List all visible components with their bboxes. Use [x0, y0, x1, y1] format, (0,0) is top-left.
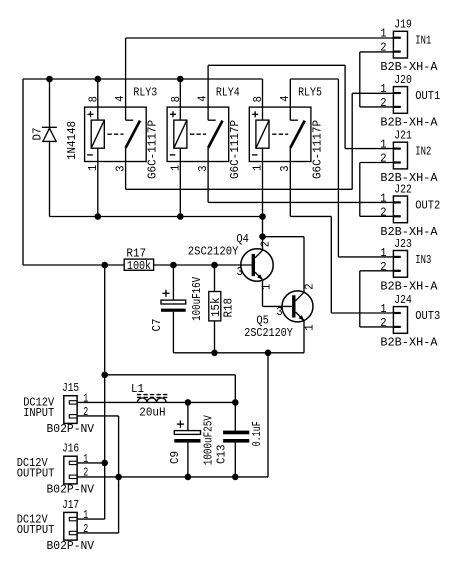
svg-text:OUT3: OUT3 — [415, 309, 440, 323]
wire D7 anode lead — [49, 141, 51, 216]
svg-text:J20: J20 — [394, 73, 412, 87]
svg-text:OUT1: OUT1 — [415, 89, 440, 103]
resistor R18 — [209, 292, 221, 321]
svg-text:2: 2 — [380, 316, 386, 330]
svg-text:1: 1 — [380, 82, 386, 96]
junction — [177, 76, 184, 83]
svg-text:2: 2 — [302, 284, 316, 290]
connector J15 — [64, 396, 77, 424]
diode D7 — [42, 127, 57, 141]
wire J19-J20 pin2 riser — [359, 52, 361, 107]
wire filtered 12V top run — [105, 374, 236, 376]
wire C13 top lead — [234, 375, 236, 431]
wire IN3 drop — [337, 79, 339, 257]
wire J16 pin1 — [77, 462, 105, 464]
wire RLY5 pin1 lead / Q4 collector — [262, 148, 264, 250]
wire input ground drop — [118, 416, 120, 533]
junction — [265, 350, 272, 357]
wire C13 bottom lead — [234, 443, 236, 477]
wire J23-J24 pin2 riser — [359, 271, 361, 327]
svg-text:J17: J17 — [62, 498, 79, 512]
wire R17 to Q4 base — [154, 264, 252, 266]
inductor L1 — [137, 395, 169, 403]
wire J19 pin2 — [360, 51, 394, 53]
svg-text:3: 3 — [237, 265, 243, 279]
wire RLY3 pin3 lead — [125, 148, 127, 189]
wire base feed left of R17 — [23, 264, 124, 266]
connector J22 — [393, 196, 407, 223]
svg-text:8: 8 — [169, 96, 183, 102]
wire RLY3 pin4 lead — [125, 38, 127, 120]
wire OUT1 riser — [351, 93, 353, 189]
junction — [95, 76, 102, 83]
wire RLY4 pin4 lead — [207, 65, 209, 120]
wire R18 top lead — [214, 265, 216, 292]
wire RLY5 pin8 lead — [262, 79, 264, 120]
wire RLY4 pin4 top run — [208, 64, 345, 66]
svg-text:1: 1 — [380, 246, 386, 260]
wire IN2 drop — [344, 65, 346, 148]
svg-text:1: 1 — [380, 138, 386, 152]
wire RLY5 pin3 jog — [290, 215, 331, 217]
svg-text:2SC2120Y: 2SC2120Y — [244, 326, 292, 340]
svg-text:1: 1 — [380, 302, 386, 316]
wire J24 pin2 — [360, 326, 394, 328]
svg-text:OUT2: OUT2 — [415, 198, 440, 212]
junction — [101, 460, 108, 467]
wire OUT3 drop — [330, 216, 332, 313]
svg-text:J16: J16 — [62, 442, 79, 456]
wire RLY5 pin4 lead — [289, 79, 291, 120]
wire J17 pin1 — [77, 518, 105, 520]
svg-text:2: 2 — [380, 260, 386, 274]
junction — [185, 474, 192, 481]
svg-text:1: 1 — [380, 27, 386, 41]
svg-text:RLY5: RLY5 — [298, 85, 322, 99]
svg-text:2: 2 — [83, 405, 88, 419]
svg-text:J15: J15 — [62, 381, 79, 395]
svg-text:3: 3 — [113, 165, 127, 171]
svg-text:1000uF25V: 1000uF25V — [202, 415, 216, 466]
wire left rail — [22, 79, 24, 265]
svg-text:1: 1 — [83, 452, 88, 466]
svg-text:1: 1 — [83, 391, 88, 405]
wire Q5 emitter lead — [303, 321, 305, 353]
svg-text:C13: C13 — [215, 445, 229, 465]
capacitor C7 — [161, 290, 186, 312]
connector J24 — [393, 307, 407, 334]
wire J21-J22 pin2 riser — [359, 163, 361, 217]
wire IN3 to J23 pin1 — [338, 256, 393, 258]
wire Q4-Q5 collector link — [263, 236, 305, 238]
wire emitter rail — [173, 352, 304, 354]
resistor R17 — [124, 259, 153, 270]
wire coil return rail — [50, 216, 263, 218]
svg-text:1: 1 — [169, 165, 183, 171]
svg-text:B2B-XH-A: B2B-XH-A — [380, 335, 438, 349]
svg-text:RLY3: RLY3 — [133, 85, 157, 99]
connector J21 — [393, 142, 407, 169]
junction — [259, 213, 266, 220]
svg-text:B02P-NV: B02P-NV — [47, 422, 95, 436]
svg-text:2: 2 — [380, 96, 386, 110]
svg-text:15k: 15k — [209, 298, 223, 318]
connector J20 — [393, 87, 407, 114]
svg-text:OUTPUT: OUTPUT — [17, 467, 55, 481]
junction — [259, 233, 266, 240]
wire J20 pin2 — [360, 106, 394, 108]
wire RLY4 pin8 lead — [179, 79, 181, 120]
svg-text:2: 2 — [380, 152, 386, 166]
svg-text:1: 1 — [251, 165, 265, 171]
junction — [170, 262, 177, 269]
svg-text:J22: J22 — [394, 182, 412, 196]
wire RLY3 pin3 to OUT1 run — [126, 188, 353, 190]
junction — [101, 372, 108, 379]
svg-text:B2B-XH-A: B2B-XH-A — [380, 115, 438, 129]
svg-text:1: 1 — [380, 191, 386, 205]
svg-text:3: 3 — [278, 165, 292, 171]
svg-text:8: 8 — [86, 96, 100, 102]
capacitor C9 — [174, 421, 200, 443]
svg-text:J23: J23 — [394, 237, 412, 251]
relay RLY3 — [85, 107, 147, 161]
svg-text:L1: L1 — [131, 382, 144, 396]
connector J23 — [393, 251, 407, 278]
connector J19 — [393, 31, 407, 58]
junction — [232, 399, 239, 406]
wire C9 bottom lead — [187, 443, 189, 477]
svg-text:C7: C7 — [150, 319, 164, 332]
junction — [177, 213, 184, 220]
svg-text:IN1: IN1 — [415, 34, 431, 48]
wire J23 pin2 — [360, 270, 394, 272]
transistor Q4 — [241, 249, 273, 281]
connector J16 — [64, 456, 77, 484]
svg-text:G6C-1117P: G6C-1117P — [310, 120, 324, 179]
wire OUT2: RLY4 pin3 to J22 pin1 — [208, 201, 393, 203]
junction — [95, 213, 102, 220]
wire filtered 12V drop — [104, 265, 106, 519]
junction — [211, 350, 218, 357]
svg-text:G6C-1117P: G6C-1117P — [228, 120, 242, 179]
junction — [46, 76, 53, 83]
svg-text:2: 2 — [380, 205, 386, 219]
wire ground riser — [267, 353, 269, 477]
svg-text:2: 2 — [258, 241, 272, 247]
junction — [232, 474, 239, 481]
wire RLY3 pin8 lead — [97, 79, 99, 120]
wire J15 pin2 — [77, 415, 119, 417]
svg-text:8: 8 — [251, 96, 265, 102]
wire C7 bottom lead — [172, 312, 174, 353]
svg-text:J21: J21 — [394, 129, 412, 143]
wire ground rail / J16 pin2 — [77, 476, 268, 478]
wire RLY4 pin1 lead — [179, 148, 181, 216]
svg-text:1: 1 — [83, 508, 88, 522]
svg-text:J24: J24 — [394, 293, 412, 307]
wire R18 bottom lead — [214, 321, 216, 353]
svg-text:D7: D7 — [31, 128, 45, 141]
wire J21 pin2 — [360, 162, 394, 164]
svg-text:2: 2 — [380, 41, 386, 55]
svg-text:100uF16V: 100uF16V — [190, 276, 204, 321]
wire J15 pin1 through L1 — [77, 401, 235, 403]
wire Q4 emitter to Q5 base — [263, 305, 293, 307]
capacitor C13 — [223, 431, 249, 443]
svg-text:2SC2120Y: 2SC2120Y — [188, 245, 239, 259]
wire J17 pin2 — [77, 532, 119, 534]
junction — [101, 262, 108, 269]
junction — [211, 262, 218, 269]
wire RLY5 pin3 lead — [289, 148, 291, 217]
svg-text:R18: R18 — [221, 298, 235, 318]
junction — [115, 474, 122, 481]
svg-text:IN2: IN2 — [415, 145, 431, 159]
svg-text:3: 3 — [276, 305, 282, 319]
wire IN1: RLY3 pin4 to J19 pin1 — [126, 37, 394, 39]
svg-text:0.1uF: 0.1uF — [250, 421, 264, 446]
svg-text:INPUT: INPUT — [23, 406, 54, 420]
wire Q5 collector lead — [303, 237, 305, 293]
svg-text:2: 2 — [83, 466, 88, 480]
svg-text:C9: C9 — [168, 451, 182, 464]
wire +12V coil rail — [23, 78, 263, 80]
svg-text:OUTPUT: OUTPUT — [17, 523, 55, 537]
wire J20 pin1 — [352, 92, 393, 94]
wire RLY4 pin3 lead — [207, 148, 209, 203]
svg-text:RLY4: RLY4 — [216, 85, 240, 99]
relay RLY4 — [167, 107, 229, 161]
svg-text:1: 1 — [260, 284, 274, 290]
svg-text:B02P-NV: B02P-NV — [47, 539, 95, 553]
wire J22 pin2 — [360, 215, 394, 217]
connector J17 — [64, 512, 77, 540]
svg-text:3: 3 — [196, 165, 210, 171]
transistor Q5 — [282, 291, 313, 322]
svg-text:4: 4 — [196, 96, 210, 102]
junction — [185, 399, 192, 406]
svg-text:1: 1 — [86, 165, 100, 171]
wire Q4 emitter lead — [262, 280, 264, 306]
svg-text:1N4148: 1N4148 — [65, 121, 79, 160]
svg-text:1: 1 — [303, 324, 317, 330]
relay RLY5 — [249, 107, 311, 161]
svg-text:B02P-NV: B02P-NV — [47, 483, 95, 497]
svg-text:20uH: 20uH — [139, 405, 165, 419]
wire IN2 to J21 pin1 — [345, 148, 393, 150]
wire C7 top lead — [172, 265, 174, 300]
wire RLY3 pin1 lead — [97, 148, 99, 216]
svg-text:100k: 100k — [127, 259, 151, 273]
svg-text:J19: J19 — [394, 18, 412, 32]
wire OUT3 to J24 pin1 — [331, 312, 393, 314]
svg-text:IN3: IN3 — [415, 253, 431, 267]
svg-text:4: 4 — [113, 96, 127, 102]
wire C9 top lead — [187, 402, 189, 430]
wire D7 cathode lead — [49, 79, 51, 127]
svg-text:B2B-XH-A: B2B-XH-A — [380, 279, 438, 293]
wire RLY5 pin4 top run — [290, 78, 338, 80]
svg-text:4: 4 — [278, 96, 292, 102]
svg-text:2: 2 — [83, 522, 88, 536]
svg-text:G6C-1117P: G6C-1117P — [146, 120, 160, 179]
